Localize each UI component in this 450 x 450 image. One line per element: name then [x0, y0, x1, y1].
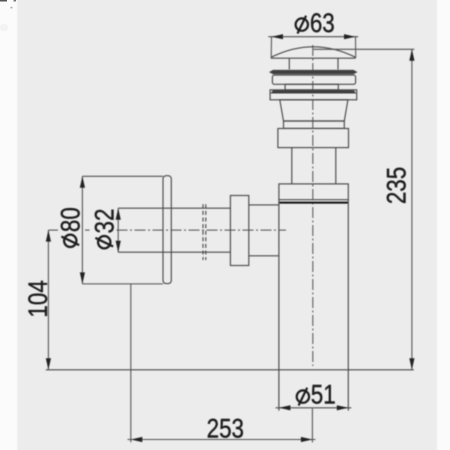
svg-text:253: 253 [207, 415, 244, 444]
svg-text:80: 80 [56, 207, 85, 232]
svg-text:104: 104 [24, 280, 53, 318]
svg-text:63: 63 [310, 9, 335, 38]
svg-text:235: 235 [383, 167, 412, 204]
svg-text:51: 51 [311, 380, 336, 409]
svg-text:32: 32 [90, 209, 119, 234]
